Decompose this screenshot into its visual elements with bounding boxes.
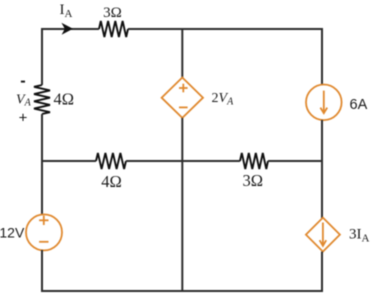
resistor 4ohm (left)	[34, 85, 50, 114]
2V_A minus sign	[179, 106, 188, 108]
wire middle vertical upper segment	[181, 29, 183, 78]
wire middle horizontal center segment	[126, 160, 240, 162]
wire top-left segment	[42, 28, 99, 30]
6A arrow	[320, 91, 327, 114]
svg-text:4Ω: 4Ω	[101, 172, 122, 191]
resistor 3ohm (middle)	[240, 153, 268, 169]
wire middle vertical lower segment	[181, 118, 183, 292]
label minus (V_A polarity top)	[21, 81, 25, 83]
wire left lower segment	[41, 250, 43, 292]
wire right upper segment	[321, 28, 323, 85]
12V plus sign	[39, 216, 48, 225]
voltage source 12V circle	[26, 214, 62, 250]
wire middle horizontal right segment	[268, 160, 322, 162]
wire middle horizontal left segment	[42, 160, 96, 162]
svg-text:3Ω: 3Ω	[103, 5, 122, 21]
resistor 3ohm (top)	[99, 21, 128, 37]
current direction arrow I_A	[61, 23, 73, 35]
wire right middle segment	[321, 120, 323, 218]
svg-text:12V: 12V	[0, 225, 25, 241]
dependent current source 3I_A diamond	[306, 218, 340, 252]
current source 6A circle	[306, 85, 342, 121]
3I_A arrow	[320, 223, 327, 246]
svg-text:3Ω: 3Ω	[243, 171, 264, 190]
wire right lower segment	[321, 252, 323, 292]
2V_A plus sign	[179, 84, 188, 93]
wire left middle segment	[41, 114, 43, 215]
wire left upper segment	[41, 28, 43, 85]
svg-text:+: +	[19, 109, 28, 126]
12V minus sign	[39, 241, 48, 243]
resistor 4ohm (middle)	[96, 153, 126, 169]
svg-text:4Ω: 4Ω	[54, 90, 75, 109]
wire bottom	[41, 290, 323, 292]
svg-text:6A: 6A	[350, 97, 368, 113]
wire top-right segment	[128, 28, 322, 30]
dependent voltage source 2V_A diamond	[162, 78, 203, 118]
